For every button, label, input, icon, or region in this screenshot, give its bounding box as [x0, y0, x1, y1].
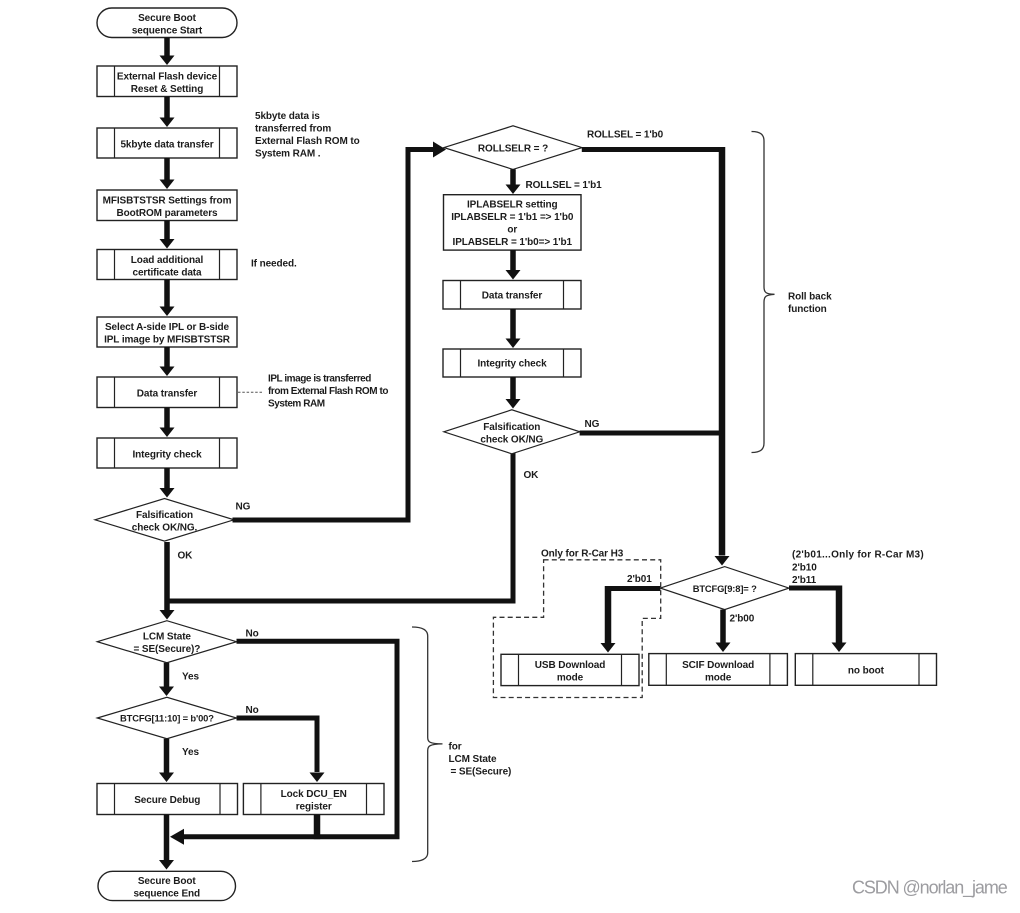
svg-text:function: function [788, 304, 827, 315]
svg-text:2'b10: 2'b10 [792, 563, 817, 574]
svg-text:No: No [246, 629, 259, 640]
wire: right falsification OK elbow joining OK line [167, 453, 514, 601]
svg-text:System RAM .: System RAM . [255, 149, 321, 160]
svg-text:5kbyte data is: 5kbyte data is [255, 111, 320, 122]
process: 5kbyte data transfer [97, 128, 237, 158]
svg-text:Reset & Setting: Reset & Setting [131, 84, 203, 95]
svg-text:Data transfer: Data transfer [137, 389, 198, 400]
svg-text:External Flash device: External Flash device [117, 72, 218, 83]
wire: arrowhead into merge (pointing left) [170, 829, 184, 845]
terminator: Secure Boot sequence Start [97, 8, 237, 38]
svg-text:certificate data: certificate data [133, 268, 203, 279]
svg-text:OK: OK [524, 470, 540, 481]
svg-text:IPLABSELR setting: IPLABSELR setting [467, 200, 558, 211]
process: Load additional certificate data [97, 250, 237, 280]
wire: right falsification NG to vertical bus [580, 431, 722, 436]
svg-text:Secure Boot: Secure Boot [138, 13, 197, 24]
wire: arrow to Load additional certificate data [164, 221, 170, 240]
decision: LCM State = SE(Secure)? [97, 621, 236, 663]
process: SCIF Download mode [649, 654, 788, 686]
process: Lock DCU_EN register [243, 784, 384, 815]
svg-text:Load additional: Load additional [131, 255, 204, 266]
svg-text:External Flash ROM to: External Flash ROM to [255, 136, 360, 147]
process: USB Download mode [501, 654, 639, 685]
svg-text:Integrity check: Integrity check [132, 450, 202, 461]
wire: arrow to Integrity check (right) [510, 309, 516, 339]
svg-text:OK: OK [178, 551, 194, 562]
svg-text:USB Download: USB Download [535, 660, 605, 671]
svg-text:Select A-side IPL or B-side: Select A-side IPL or B-side [105, 322, 230, 333]
svg-text:IPLABSELR = 1'b1 => 1'b0: IPLABSELR = 1'b1 => 1'b0 [451, 212, 574, 223]
process: Data transfer (right) [443, 281, 581, 310]
svg-text:LCM State: LCM State [449, 754, 498, 765]
svg-text:IPL image is transferred: IPL image is transferred [268, 374, 371, 385]
svg-text:BootROM parameters: BootROM parameters [117, 208, 219, 219]
svg-text:= SE(Secure)?: = SE(Secure)? [134, 644, 201, 655]
svg-text:Lock DCU_EN: Lock DCU_EN [281, 789, 347, 800]
wire: 2'b00 arrow into SCIF Download mode [720, 610, 726, 643]
svg-text:sequence End: sequence End [133, 889, 200, 900]
svg-text:Secure Debug: Secure Debug [134, 795, 200, 806]
process: Integrity check (left) [97, 438, 237, 468]
decision: BTCFG[11:10] = b'00? [97, 697, 236, 738]
svg-text:BTCFG[11:10] = b'00?: BTCFG[11:10] = b'00? [120, 713, 214, 724]
svg-text:MFISBTSTSR Settings from: MFISBTSTSR Settings from [103, 196, 232, 207]
wire: Yes arrow to BTCFG[11:10] [164, 663, 170, 687]
svg-text:Secure Boot: Secure Boot [138, 876, 197, 887]
svg-text:Only for R-Car H3: Only for R-Car H3 [541, 549, 624, 560]
svg-text:Falsification: Falsification [483, 422, 540, 433]
svg-text:check OK/NG.: check OK/NG. [132, 523, 198, 534]
svg-text:SCIF Download: SCIF Download [682, 660, 754, 671]
svg-text:Falsification: Falsification [136, 510, 193, 521]
dashed region: Only for R-Car H3 [493, 560, 660, 698]
svg-text:If needed.: If needed. [251, 259, 297, 270]
svg-text:sequence Start: sequence Start [132, 26, 203, 37]
process: IPLABSELR setting [444, 195, 582, 250]
process: no boot [795, 654, 936, 686]
svg-text:Roll back: Roll back [788, 292, 832, 303]
decision: Falsification check OK/NG (left) [95, 499, 234, 542]
svg-text:System RAM: System RAM [268, 399, 325, 410]
wire: arrow to MFISBTSTSR settings [164, 158, 170, 180]
svg-text:(2'b01...Only for R-Car M3): (2'b01...Only for R-Car M3) [792, 550, 924, 561]
svg-text:transferred from: transferred from [255, 124, 331, 135]
process: Select A-side IPL or B-side IPL image by MFISBTSTSR [97, 317, 237, 347]
wire: arrow Start to External Flash box [164, 38, 170, 56]
svg-text:mode: mode [705, 673, 732, 684]
svg-text:BTCFG[9:8]= ?: BTCFG[9:8]= ? [693, 583, 757, 594]
process: Integrity check (right) [443, 349, 581, 377]
svg-text:NG: NG [585, 419, 600, 430]
svg-text:5kbyte data transfer: 5kbyte data transfer [120, 140, 213, 151]
wire: arrow to Falsification check (right) [510, 377, 516, 399]
svg-text:No: No [246, 705, 259, 716]
process: External Flash device Reset & Setting [97, 66, 237, 97]
svg-text:2'b11: 2'b11 [792, 575, 817, 586]
wire: arrowhead into ROLLSELR diamond [433, 142, 446, 158]
bracket: for LCM State = SE(Secure) [412, 627, 443, 862]
wire: arrow to Data transfer (right) [510, 250, 516, 270]
svg-text:= SE(Secure): = SE(Secure) [451, 767, 512, 778]
svg-text:check OK/NG: check OK/NG [480, 435, 543, 446]
process: MFISBTSTSR Settings from BootROM parameters [97, 190, 237, 221]
annotation: IPL image transfer note with leader line [238, 391, 262, 393]
wire: ROLLSEL=1b0 elbow to BTCFG[9:8] [582, 147, 722, 152]
decision: Falsification check OK/NG (right) [444, 410, 580, 454]
svg-text:IPLABSELR = 1'b0=> 1'b1: IPLABSELR = 1'b0=> 1'b1 [453, 237, 573, 248]
wire: arrow to Select A-side IPL [164, 280, 170, 307]
terminator: Secure Boot sequence End [98, 871, 236, 900]
svg-text:or: or [507, 225, 517, 236]
bracket: Roll back function [752, 132, 775, 453]
wire: arrow to Falsification check [164, 468, 170, 488]
svg-text:2'b00: 2'b00 [730, 614, 755, 625]
svg-text:from External Flash ROM to: from External Flash ROM to [268, 386, 388, 397]
svg-text:CSDN @norlan_jame: CSDN @norlan_jame [852, 878, 1008, 899]
wire: Yes arrow into Secure Debug [164, 739, 170, 773]
svg-text:Integrity check: Integrity check [477, 359, 547, 370]
wire: arrowhead into BTCFG[9:8] diamond [715, 556, 730, 566]
svg-text:NG: NG [236, 502, 251, 513]
svg-text:no boot: no boot [848, 666, 885, 677]
svg-text:ROLLSELR = ?: ROLLSELR = ? [478, 144, 548, 155]
svg-text:mode: mode [557, 673, 584, 684]
svg-text:LCM State: LCM State [143, 632, 192, 643]
svg-text:ROLLSEL = 1'b1: ROLLSEL = 1'b1 [526, 180, 603, 191]
svg-text:IPL image by MFISBTSTSR: IPL image by MFISBTSTSR [104, 335, 231, 346]
decision: BTCFG[9:8]= ? [660, 567, 789, 610]
svg-text:Yes: Yes [182, 672, 199, 683]
svg-text:Data transfer: Data transfer [482, 291, 543, 302]
wire: LCM No elbow to merge point [183, 641, 397, 837]
wire: arrow ROLLSELR to IPLABSELR setting [510, 169, 516, 184]
wire: merged arrow into End terminator [164, 815, 170, 861]
svg-text:Yes: Yes [182, 747, 199, 758]
wire: 2'b01 elbow into USB Download mode [608, 586, 660, 591]
wire: 2'b10/2'b11 elbow into no boot [789, 586, 839, 591]
wire: BTCFG No elbow into Lock DCU_EN [237, 718, 318, 772]
svg-text:for: for [449, 742, 462, 753]
wire: Lock DCU_EN down to merge [314, 815, 321, 840]
decision: ROLLSELR = ? [444, 126, 582, 170]
svg-text:2'b01: 2'b01 [627, 574, 652, 585]
wire: left falsification NG feedback to ROLLSELR [233, 150, 435, 521]
svg-text:register: register [296, 802, 332, 813]
wire: arrow to Data transfer [164, 347, 170, 367]
svg-text:ROLLSEL = 1'b0: ROLLSEL = 1'b0 [587, 130, 664, 141]
wire: arrow to Integrity check [164, 408, 170, 428]
process: Data transfer (left) [97, 377, 237, 408]
process: Secure Debug [97, 784, 238, 815]
wire: OK arrow down into LCM State diamond [164, 542, 170, 610]
wire: arrow to 5kbyte data transfer [164, 97, 170, 118]
